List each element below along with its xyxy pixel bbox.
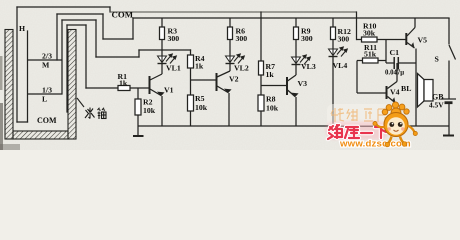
- svg-text:51k: 51k: [364, 50, 377, 59]
- svg-text:4.5V: 4.5V: [429, 101, 444, 110]
- svg-text:VL3: VL3: [301, 62, 316, 71]
- svg-text:R8: R8: [266, 95, 276, 104]
- svg-text:300: 300: [301, 34, 313, 43]
- svg-text:C1: C1: [390, 48, 400, 57]
- svg-text:L: L: [42, 95, 47, 104]
- svg-text:10k: 10k: [266, 104, 279, 113]
- svg-text:300: 300: [338, 35, 350, 44]
- svg-text:S: S: [435, 55, 439, 64]
- svg-text:300: 300: [168, 34, 180, 43]
- svg-text:10k: 10k: [195, 103, 208, 112]
- svg-text:1/3: 1/3: [42, 86, 52, 95]
- svg-text:V5: V5: [418, 36, 428, 45]
- svg-text:1k: 1k: [119, 79, 128, 88]
- svg-text:V4: V4: [390, 88, 400, 97]
- svg-text:1k: 1k: [266, 70, 275, 79]
- svg-text:V1: V1: [164, 86, 174, 95]
- svg-text:VL4: VL4: [333, 61, 348, 70]
- svg-text:COM: COM: [112, 10, 134, 20]
- svg-text:R5: R5: [195, 94, 205, 103]
- svg-text:M: M: [42, 61, 50, 70]
- svg-text:300: 300: [236, 34, 248, 43]
- svg-text:BL: BL: [401, 84, 411, 93]
- svg-text:VL2: VL2: [234, 64, 249, 73]
- svg-text:COM: COM: [37, 116, 57, 125]
- svg-text:VL1: VL1: [166, 64, 181, 73]
- svg-text:30k: 30k: [363, 29, 376, 38]
- svg-text:1k: 1k: [195, 62, 204, 71]
- svg-text:www.dzsc.com: www.dzsc.com: [339, 139, 411, 150]
- svg-text:10k: 10k: [143, 106, 156, 115]
- svg-text:H: H: [19, 24, 25, 33]
- svg-text:2/3: 2/3: [42, 52, 52, 61]
- svg-text:V2: V2: [229, 75, 239, 84]
- svg-text:0.047μ: 0.047μ: [385, 70, 404, 77]
- svg-text:V3: V3: [298, 79, 308, 88]
